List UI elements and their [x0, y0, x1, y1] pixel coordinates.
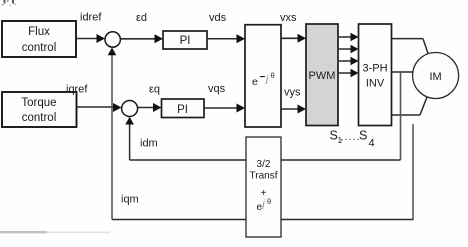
block: 3-PH INV: [359, 24, 392, 126]
svg-text:3/2: 3/2: [257, 159, 271, 170]
block: PWM: [306, 24, 338, 126]
wire: iqref (Torque control to summing junction 2): [77, 103, 122, 112]
block: e^-jtheta: [245, 25, 281, 127]
wire: vxs (e-jtheta to PWM): [281, 34, 306, 43]
wire: vys (e-jtheta to PWM): [281, 105, 306, 114]
svg-text:IM: IM: [429, 71, 441, 83]
svg-text:−: −: [260, 72, 266, 83]
wire: iqm up into junction 1: [108, 47, 117, 219]
label S1,....S4: [330, 129, 375, 150]
wire: inverter phase B to motor: [392, 71, 414, 73]
summing junction 1: [105, 32, 120, 47]
svg-text:iqm: iqm: [121, 194, 139, 206]
svg-text:,....: ,....: [341, 132, 361, 143]
svg-text:θ: θ: [267, 197, 271, 206]
svg-text:PI: PI: [180, 35, 191, 47]
svg-text:vxs: vxs: [280, 12, 297, 24]
block: Torque control: [2, 92, 77, 127]
wire: inverter phase A to motor: [392, 39, 429, 54]
svg-text:control: control: [22, 112, 57, 124]
block: PI 2: [162, 99, 205, 118]
wire: idm up into junction 2: [125, 117, 134, 160]
wire: current sensor tap 1 (phase B down): [400, 72, 402, 160]
block: 3/2 transform: [246, 137, 281, 237]
wire: ed (junction 1 to PI 1): [120, 34, 163, 43]
svg-text:Torque: Torque: [21, 97, 56, 109]
wire: eq (junction 2 to PI 2): [138, 103, 162, 112]
svg-text:εd: εd: [136, 12, 147, 24]
svg-text:4: 4: [369, 138, 375, 150]
svg-text:control: control: [22, 42, 57, 54]
svg-text:S: S: [359, 129, 367, 143]
wire: idm feedback horizontal: [130, 159, 401, 161]
svg-text:PWM: PWM: [309, 70, 336, 82]
svg-text:εq: εq: [149, 84, 160, 96]
motor IM: [413, 53, 459, 99]
wire: current sensor tap 2 (phase C down): [412, 124, 414, 220]
svg-text:θ: θ: [271, 71, 275, 80]
wire: vds (PI 1 to e-jtheta): [207, 34, 245, 43]
summing junction 2: [122, 101, 138, 117]
svg-text:idref: idref: [80, 12, 102, 24]
svg-text:vds: vds: [209, 12, 227, 24]
svg-text:PI: PI: [177, 104, 188, 116]
svg-text:Flux: Flux: [28, 26, 50, 38]
wire: vqs (PI 2 to e-jtheta): [204, 104, 245, 113]
svg-text:+: +: [261, 188, 267, 199]
wire: idref (Flux control to summing junction 1): [76, 34, 105, 43]
faint caption smudge bottom-left: [0, 231, 47, 233]
svg-text:e: e: [252, 76, 258, 88]
svg-text:iqref: iqref: [66, 84, 88, 96]
wires: S1..S4 gate signals (PWM to 3-PH INV): [338, 33, 359, 77]
svg-text:vys: vys: [284, 87, 301, 99]
svg-text:idm: idm: [140, 138, 158, 150]
block: Flux control: [2, 21, 76, 57]
wire: iqm feedback horizontal: [112, 219, 413, 221]
block: PI 1: [163, 31, 207, 49]
svg-text:Transf: Transf: [250, 171, 278, 182]
svg-text:vqs: vqs: [208, 83, 226, 95]
svg-text:3-PH: 3-PH: [362, 63, 387, 75]
cropped text fragment top-left: [1, 0, 16, 6]
svg-text:INV: INV: [366, 78, 385, 90]
wire: inverter phase C to motor: [392, 97, 428, 116]
